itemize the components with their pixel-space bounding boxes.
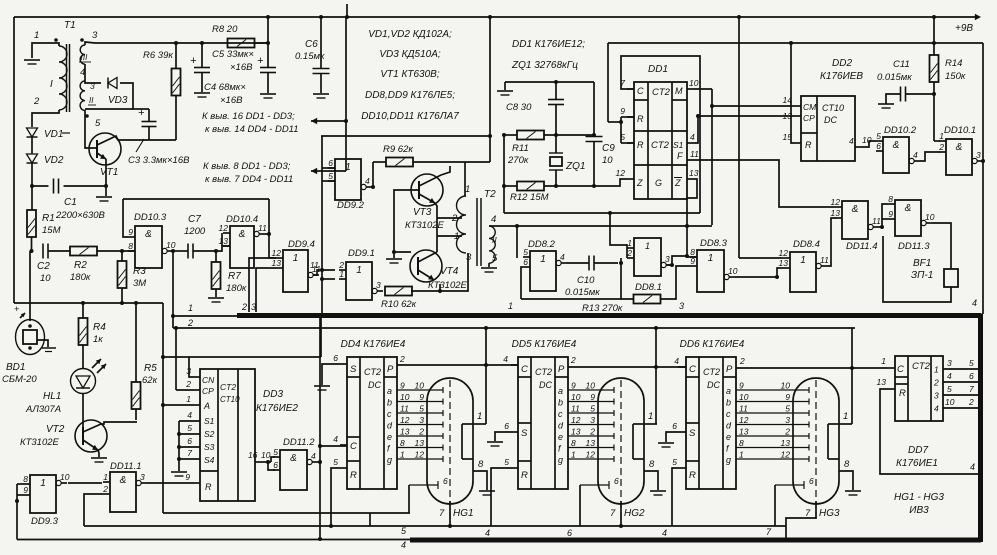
- T2 secondary top feedback line y=226: [489, 225, 712, 227]
- wire DD8.1 out to DD8.3 pin8 node: [666, 256, 687, 265]
- bus line 2 anode wire y=328: [173, 327, 855, 329]
- svg-text:6: 6: [672, 421, 677, 431]
- svg-text:P: P: [387, 364, 394, 375]
- svg-text:1: 1: [843, 411, 848, 422]
- svg-text:5: 5: [492, 253, 498, 264]
- ground at T1 pin 1: [24, 59, 40, 61]
- resistor R12: [504, 185, 517, 187]
- DD4 S pin ground: [340, 363, 347, 365]
- DD4 R drop: [331, 468, 340, 526]
- node R1 bottom: [31, 237, 33, 251]
- svg-text:5: 5: [333, 457, 338, 467]
- svg-text:R: R: [521, 470, 528, 481]
- svg-text:VT2: VT2: [46, 424, 65, 435]
- svg-text:P: P: [558, 364, 565, 375]
- svg-text:×16В: ×16В: [230, 62, 253, 73]
- svg-text:10: 10: [689, 78, 699, 88]
- svg-text:13: 13: [400, 427, 410, 437]
- svg-text:1: 1: [465, 184, 470, 195]
- svg-text:6: 6: [328, 158, 333, 168]
- wire DD10.2 out to DD10.1 pin2: [920, 152, 940, 161]
- left long vertical x=163: [162, 303, 164, 513]
- DD6 P wire to DD7 C: [736, 367, 888, 369]
- wire C1: [32, 185, 49, 187]
- svg-text:VD3 КД510А;: VD3 КД510А;: [379, 49, 441, 60]
- svg-text:7: 7: [439, 508, 445, 519]
- svg-text:C: C: [689, 364, 696, 375]
- svg-text:&: &: [145, 229, 152, 240]
- svg-text:10: 10: [40, 273, 51, 284]
- LED HL1: [71, 369, 96, 394]
- wire from +9V line to R pins: [607, 43, 609, 122]
- VT3 base wire: [394, 190, 419, 252]
- svg-text:C: C: [637, 86, 644, 96]
- svg-text:III: III: [81, 53, 88, 62]
- svg-text:8: 8: [128, 241, 133, 251]
- svg-text:DD11.2: DD11.2: [283, 437, 315, 448]
- svg-text:3: 3: [466, 252, 472, 263]
- svg-text:2: 2: [399, 354, 405, 364]
- bottom wire L1: [163, 512, 410, 514]
- wire DD2 out to DD10.2: [862, 141, 876, 147]
- svg-text:R8 20: R8 20: [212, 24, 238, 35]
- svg-text:2: 2: [33, 96, 40, 107]
- svg-text:3: 3: [665, 254, 670, 264]
- svg-text:270к: 270к: [507, 155, 529, 166]
- wire HL1 to VT2 base: [82, 393, 84, 430]
- svg-text:1: 1: [571, 450, 576, 460]
- svg-text:1к: 1к: [93, 334, 103, 345]
- resistor R1: [27, 210, 36, 237]
- svg-text:II: II: [492, 235, 497, 245]
- svg-text:DD4 К176ИЕ4: DD4 К176ИЕ4: [341, 339, 406, 350]
- svg-text:6: 6: [809, 476, 814, 486]
- feedback wire y=199: [123, 198, 269, 200]
- svg-text:12: 12: [779, 248, 789, 258]
- svg-text:3: 3: [785, 415, 790, 425]
- T2 secondary bottom ground: [488, 263, 490, 267]
- svg-text:VT4: VT4: [440, 266, 459, 277]
- svg-text:2: 2: [187, 318, 193, 328]
- svg-text:10: 10: [728, 266, 738, 276]
- transistor VT1: [89, 133, 121, 165]
- svg-text:5: 5: [504, 457, 509, 467]
- svg-text:10: 10: [571, 392, 581, 402]
- svg-text:6: 6: [567, 528, 572, 538]
- svg-text:К176ИЕ2: К176ИЕ2: [256, 403, 298, 414]
- svg-text:VT1 КТ630В;: VT1 КТ630В;: [380, 69, 439, 80]
- DD7 pins: [888, 367, 895, 369]
- wire DD11.1 pin2 loop: [84, 494, 103, 526]
- DD5 grid drop: [579, 485, 581, 526]
- svg-text:180к: 180к: [70, 272, 91, 283]
- svg-text:1: 1: [881, 356, 886, 366]
- crystal ZQ1: [554, 133, 558, 137]
- svg-text:1: 1: [934, 365, 939, 375]
- svg-text:C: C: [521, 364, 528, 375]
- svg-text:HG1 - HG3: HG1 - HG3: [894, 492, 944, 503]
- svg-text:3: 3: [590, 415, 595, 425]
- wire C2 to R2: [48, 250, 70, 252]
- svg-text:8: 8: [739, 438, 744, 448]
- svg-text:BD1: BD1: [6, 362, 25, 373]
- HG1 pin7 drop: [449, 501, 451, 526]
- svg-text:5: 5: [273, 447, 278, 457]
- svg-text:8: 8: [649, 459, 655, 470]
- oscillator C8: [505, 81, 594, 83]
- svg-text:3: 3: [934, 391, 939, 401]
- svg-text:13: 13: [571, 427, 581, 437]
- svg-text:C: C: [350, 441, 357, 452]
- svg-text:&: &: [120, 475, 127, 486]
- svg-text:DD7: DD7: [908, 445, 928, 456]
- svg-text:T1: T1: [64, 20, 76, 31]
- svg-text:DD5 К176ИЕ4: DD5 К176ИЕ4: [512, 339, 577, 350]
- svg-text:8: 8: [23, 474, 28, 484]
- vertical DD10.3 out to bus: [172, 251, 174, 316]
- svg-text:1: 1: [708, 253, 714, 264]
- wire stub to page top at x=347: [346, 4, 348, 17]
- wire DD11.1 out to DD3 R: [147, 482, 193, 484]
- svg-text:10: 10: [945, 397, 955, 407]
- svg-text:S: S: [521, 428, 528, 439]
- svg-text:2: 2: [784, 427, 790, 437]
- HG1 pin8 wire to ground: [473, 471, 487, 490]
- svg-text:5: 5: [947, 384, 952, 394]
- DD1 left pins: [627, 88, 634, 90]
- wire DD9.4 pin12 drop to bus: [249, 258, 276, 312]
- svg-text:1: 1: [454, 231, 459, 242]
- svg-text:CT10: CT10: [220, 395, 240, 404]
- resistor R11: [504, 134, 517, 136]
- wire DD3 EN up to line: [189, 357, 193, 377]
- svg-text:4: 4: [401, 540, 406, 550]
- wire C7 to DD10.4: [193, 246, 230, 251]
- resistor R4: [82, 303, 84, 318]
- svg-text:КТ3102Е: КТ3102Е: [405, 220, 445, 231]
- svg-text:5: 5: [969, 358, 974, 368]
- svg-text:DD2: DD2: [832, 58, 852, 69]
- svg-text:3: 3: [376, 280, 381, 290]
- wire T1 winding II top to VD3: [85, 81, 101, 83]
- svg-text:4: 4: [311, 451, 316, 461]
- svg-text:9: 9: [739, 381, 744, 391]
- wire to BD1: [29, 251, 31, 321]
- svg-text:C11: C11: [893, 59, 910, 70]
- svg-text:R5: R5: [144, 363, 157, 374]
- svg-text:ZQ1: ZQ1: [565, 161, 585, 172]
- oscillator left vertical: [503, 135, 505, 213]
- svg-text:10: 10: [602, 155, 613, 166]
- resistor R7: [215, 251, 217, 262]
- HG3 anode vertical: [851, 328, 853, 424]
- svg-text:6: 6: [614, 476, 619, 486]
- HG3 grid wire pin6: [775, 484, 804, 486]
- oscillator bottom loop wire: [504, 212, 700, 214]
- thick bus line upper: [237, 313, 981, 318]
- svg-text:VD3: VD3: [108, 95, 128, 106]
- svg-text:VD1,VD2 КД102А;: VD1,VD2 КД102А;: [368, 29, 452, 40]
- right border vertical wire: [982, 43, 984, 314]
- wire VT1 collector to C3/R6: [116, 137, 176, 140]
- wire DD9.3 out to DD11.1: [68, 482, 102, 484]
- svg-text:1: 1: [400, 450, 405, 460]
- svg-text:3: 3: [976, 150, 981, 160]
- svg-text:КТ3102Е: КТ3102Е: [428, 280, 468, 291]
- svg-text:C7: C7: [188, 214, 201, 225]
- svg-text:R7: R7: [228, 271, 241, 282]
- svg-text:S4: S4: [204, 455, 215, 465]
- svg-text:0.015мк: 0.015мк: [565, 287, 600, 298]
- capacitor C7: [187, 244, 189, 259]
- capacitor C3 electrolytic: [148, 109, 150, 121]
- svg-text:9: 9: [571, 381, 576, 391]
- svg-text:9: 9: [400, 381, 405, 391]
- svg-text:VT3: VT3: [413, 207, 432, 218]
- svg-text:1: 1: [540, 254, 546, 265]
- svg-text:Z: Z: [674, 178, 681, 188]
- wire DD9.2 out up to R9 line: [372, 162, 374, 187]
- svg-text:К176ИЕВ: К176ИЕВ: [820, 71, 863, 82]
- svg-text:11: 11: [400, 404, 409, 414]
- svg-text:&: &: [893, 140, 900, 151]
- svg-text:CT2: CT2: [703, 367, 720, 377]
- svg-text:d: d: [726, 421, 732, 431]
- svg-text:КТ3102Е: КТ3102Е: [20, 437, 60, 448]
- svg-text:9: 9: [785, 392, 790, 402]
- svg-text:C4 68мк×: C4 68мк×: [204, 82, 246, 93]
- T2 core: [476, 198, 478, 266]
- DD1 right pins: [687, 88, 694, 90]
- VT2 collector wire to R5: [101, 422, 137, 424]
- svg-text:6: 6: [504, 421, 509, 431]
- svg-text:6: 6: [443, 476, 448, 486]
- svg-text:HL1: HL1: [43, 391, 61, 402]
- svg-text:+9В: +9В: [955, 23, 973, 34]
- svg-text:CT2: CT2: [912, 361, 931, 372]
- wire DD1 pin4 to DD2 CP: [694, 116, 794, 143]
- svg-text:0.015мк: 0.015мк: [877, 72, 912, 83]
- svg-text:DC: DC: [707, 380, 720, 390]
- segment wires DD4 to HG1: [397, 389, 443, 391]
- HG3 pin8 wire to ground: [839, 471, 853, 490]
- svg-text:DD8.2: DD8.2: [528, 239, 556, 250]
- svg-text:4: 4: [972, 298, 977, 308]
- wire R2 to DD10.3 pin8: [97, 250, 135, 252]
- wire DD1 pin7 outer loop to oscillator: [621, 56, 700, 213]
- svg-text:&: &: [852, 204, 859, 215]
- wire DD10.3 pin9 up: [123, 199, 128, 237]
- svg-text:S1: S1: [204, 416, 215, 426]
- svg-text:4: 4: [365, 176, 370, 186]
- svg-text:3М: 3М: [133, 278, 146, 289]
- wire DD3 A: [163, 404, 193, 406]
- svg-text:11: 11: [820, 255, 829, 265]
- svg-text:R: R: [205, 482, 212, 492]
- svg-text:АЛ307А: АЛ307А: [25, 404, 61, 415]
- svg-text:16: 16: [248, 450, 258, 460]
- svg-text:VD1: VD1: [44, 129, 63, 140]
- svg-text:g: g: [726, 455, 731, 465]
- DD5 S ground: [495, 432, 511, 441]
- svg-text:4: 4: [970, 462, 975, 472]
- VT2 emitter ground: [98, 450, 99, 457]
- svg-text:R: R: [899, 388, 906, 399]
- svg-text:HG3: HG3: [819, 508, 840, 519]
- svg-text:8: 8: [844, 459, 850, 470]
- svg-text:f: f: [558, 444, 562, 454]
- svg-text:HG1: HG1: [453, 508, 474, 519]
- svg-text:5: 5: [401, 526, 407, 536]
- svg-text:5: 5: [785, 404, 790, 414]
- HG1 anode vertical: [485, 328, 487, 424]
- wire DD9.4 out to DD9.1: [313, 270, 335, 275]
- capacitor C5 electrolytic: [267, 17, 269, 67]
- wire DD1 pin13 staircase down: [687, 179, 697, 257]
- VT1 emitter to ground: [105, 159, 107, 196]
- svg-text:12: 12: [616, 168, 626, 178]
- svg-text:I: I: [50, 79, 53, 90]
- svg-text:5: 5: [590, 404, 595, 414]
- svg-text:1: 1: [34, 30, 39, 41]
- DD5 P wire to DD6 C: [568, 366, 686, 368]
- junction dots on +9V rail: [266, 15, 270, 19]
- svg-text:62к: 62к: [142, 375, 158, 386]
- svg-text:3: 3: [947, 358, 952, 368]
- vertical link L1-L2: [369, 513, 371, 526]
- svg-text:12: 12: [571, 415, 581, 425]
- svg-text:R2: R2: [74, 260, 87, 271]
- svg-text:9: 9: [620, 106, 625, 116]
- DD6 S ground: [666, 432, 679, 442]
- wire DD11.2 out to DD4 C: [318, 460, 322, 464]
- svg-text:CT2: CT2: [220, 382, 236, 392]
- svg-text:1: 1: [356, 265, 362, 276]
- svg-text:&: &: [239, 229, 246, 240]
- svg-text:13: 13: [779, 258, 789, 268]
- svg-text:1: 1: [939, 131, 944, 141]
- svg-text:12: 12: [272, 248, 282, 258]
- svg-text:CT2: CT2: [651, 140, 670, 151]
- border frame left edge: [13, 17, 15, 303]
- svg-text:a: a: [558, 386, 563, 396]
- DD3 S inputs common vertical to ground: [178, 421, 180, 471]
- svg-text:CM: CM: [803, 102, 817, 112]
- svg-text:DC: DC: [539, 380, 552, 390]
- svg-text:10: 10: [925, 212, 935, 222]
- wire y=136 clock line: [321, 135, 490, 137]
- svg-text:&: &: [905, 203, 912, 214]
- svg-text:4: 4: [934, 404, 939, 414]
- long vertical wire from rail x=739: [738, 17, 740, 258]
- long +9V distribution line y=43: [608, 42, 983, 44]
- svg-text:4: 4: [849, 136, 854, 146]
- svg-text:BF1: BF1: [913, 258, 931, 269]
- svg-text:1200: 1200: [184, 226, 206, 237]
- DD2 pins: [794, 105, 801, 107]
- wire VD2 to C1 node: [31, 163, 33, 210]
- resistor R3: [121, 251, 123, 261]
- ground at VT1 emitter: [96, 196, 112, 198]
- svg-text:G: G: [655, 178, 662, 188]
- segment wires DD6 to HG3: [736, 389, 809, 391]
- svg-text:13: 13: [781, 438, 791, 448]
- svg-text:7: 7: [187, 448, 192, 458]
- wire DD8.4 out up to DD11.4: [827, 218, 836, 266]
- svg-text:5: 5: [419, 404, 424, 414]
- DD8.1 pin1 up to loop line: [610, 213, 627, 248]
- svg-text:12: 12: [219, 223, 229, 233]
- wire x=269 down to DD10.4 out: [268, 199, 270, 234]
- VT4 base wire and ground: [392, 250, 396, 254]
- resistor R2: [70, 247, 97, 256]
- svg-text:S: S: [689, 428, 696, 439]
- wire T1 pin2 down to VD1: [32, 110, 59, 127]
- svg-text:c: c: [387, 409, 392, 419]
- svg-text:S3: S3: [204, 442, 215, 452]
- svg-text:e: e: [726, 432, 731, 442]
- svg-text:ЗП-1: ЗП-1: [911, 270, 933, 281]
- indicator tube HG2: [598, 378, 644, 504]
- wire DD1 pin10 M to DD2 and down: [694, 88, 712, 90]
- wire DD3 pin16 to DD11.2: [255, 461, 271, 463]
- svg-text:DD11.4: DD11.4: [846, 241, 878, 252]
- transformer T1 winding II: [80, 81, 85, 110]
- DD8.2 pin6 down to R13 wire: [521, 267, 523, 299]
- svg-text:S: S: [350, 364, 357, 375]
- DD4 P wire to DD5 C: [397, 364, 518, 366]
- svg-text:1: 1: [339, 269, 344, 279]
- svg-text:CT10: CT10: [822, 103, 844, 113]
- HG2 pin8 wire to ground: [644, 471, 658, 490]
- svg-text:+: +: [257, 55, 264, 67]
- svg-text:F: F: [677, 151, 683, 161]
- svg-text:13: 13: [219, 236, 229, 246]
- svg-text:9: 9: [128, 227, 133, 237]
- svg-text:10: 10: [586, 381, 596, 391]
- svg-text:e: e: [387, 432, 392, 442]
- svg-text:3: 3: [92, 30, 98, 41]
- svg-text:3: 3: [140, 472, 145, 482]
- svg-text:4: 4: [503, 354, 508, 364]
- svg-text:2: 2: [102, 484, 108, 494]
- HG3 pin1 anode wire: [839, 423, 852, 425]
- svg-text:1: 1: [188, 303, 193, 313]
- svg-text:6: 6: [876, 141, 881, 151]
- indicator tube HG1: [427, 378, 473, 504]
- svg-text:R4: R4: [93, 322, 106, 333]
- svg-text:C10: C10: [577, 275, 595, 286]
- svg-text:R14: R14: [945, 58, 962, 69]
- T2 tap wires: [437, 217, 462, 219]
- capacitor C4 electrolytic: [201, 43, 203, 67]
- diode VD3: [108, 78, 117, 89]
- HG3 pin7 drop: [786, 501, 816, 540]
- svg-text:c: c: [558, 409, 563, 419]
- svg-text:2: 2: [933, 378, 939, 388]
- wire T1 pin3 to +43 rail toward R8: [85, 42, 268, 45]
- wire DD2 R up to +9V line: [791, 43, 794, 143]
- svg-text:R9 62к: R9 62к: [383, 144, 413, 155]
- ground for C8 wire: [504, 82, 506, 90]
- svg-text:12: 12: [739, 415, 749, 425]
- wire DD9.4 pin13 to bus: [256, 268, 276, 312]
- svg-text:R1: R1: [42, 213, 55, 224]
- svg-text:C9: C9: [602, 143, 615, 154]
- svg-text:ИВ3: ИВ3: [909, 505, 929, 516]
- svg-text:C6: C6: [305, 39, 318, 50]
- thick bus bottom: [410, 538, 981, 543]
